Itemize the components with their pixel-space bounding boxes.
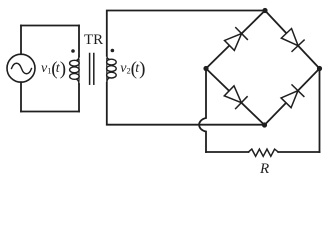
wire primary right lower [78, 84, 80, 111]
svg-text:R: R [259, 161, 269, 177]
transformer TR primary coil [70, 56, 80, 84]
wire bridge branch lower-right [265, 69, 320, 126]
node dot top [262, 8, 267, 13]
wire left node down with hop over secondary-bottom wire [199, 69, 206, 153]
wire primary loop top [21, 25, 79, 27]
wire bridge branch upper-left [206, 11, 265, 69]
wire bottom rail right [278, 151, 319, 153]
diode D2 upper-right [281, 29, 304, 52]
transformer TR core [89, 54, 91, 85]
wire bridge branch upper-right [265, 11, 320, 69]
wire primary left upper [20, 26, 22, 55]
label v1(t) [41, 59, 66, 80]
wire bridge branch lower-left [206, 69, 265, 126]
node dot right [317, 66, 322, 71]
wire bottom rail left [206, 151, 249, 153]
diode D1 upper-left [225, 27, 248, 50]
wire right node down [319, 69, 321, 153]
diode D3 lower-left [224, 86, 247, 109]
resistor R zigzag [249, 149, 279, 156]
transformer phasing dot primary [71, 49, 75, 53]
svg-text:): ) [139, 59, 145, 80]
transformer phasing dot secondary [111, 49, 115, 53]
wire primary left lower [20, 82, 22, 111]
wire secondary top [107, 11, 265, 56]
node dot bottom [262, 122, 267, 127]
label v2(t) [120, 59, 145, 80]
wire primary loop bottom [21, 111, 79, 113]
ac source V1 sine [12, 63, 32, 74]
wire secondary bottom [107, 83, 265, 125]
transformer TR secondary coil [107, 55, 117, 82]
svg-text:): ) [60, 59, 66, 80]
ac source V1 circle [7, 54, 35, 82]
node dot left [203, 66, 208, 71]
diode D4 lower-right [281, 84, 304, 107]
wire primary right upper [78, 26, 80, 57]
svg-text:TR: TR [84, 32, 103, 48]
